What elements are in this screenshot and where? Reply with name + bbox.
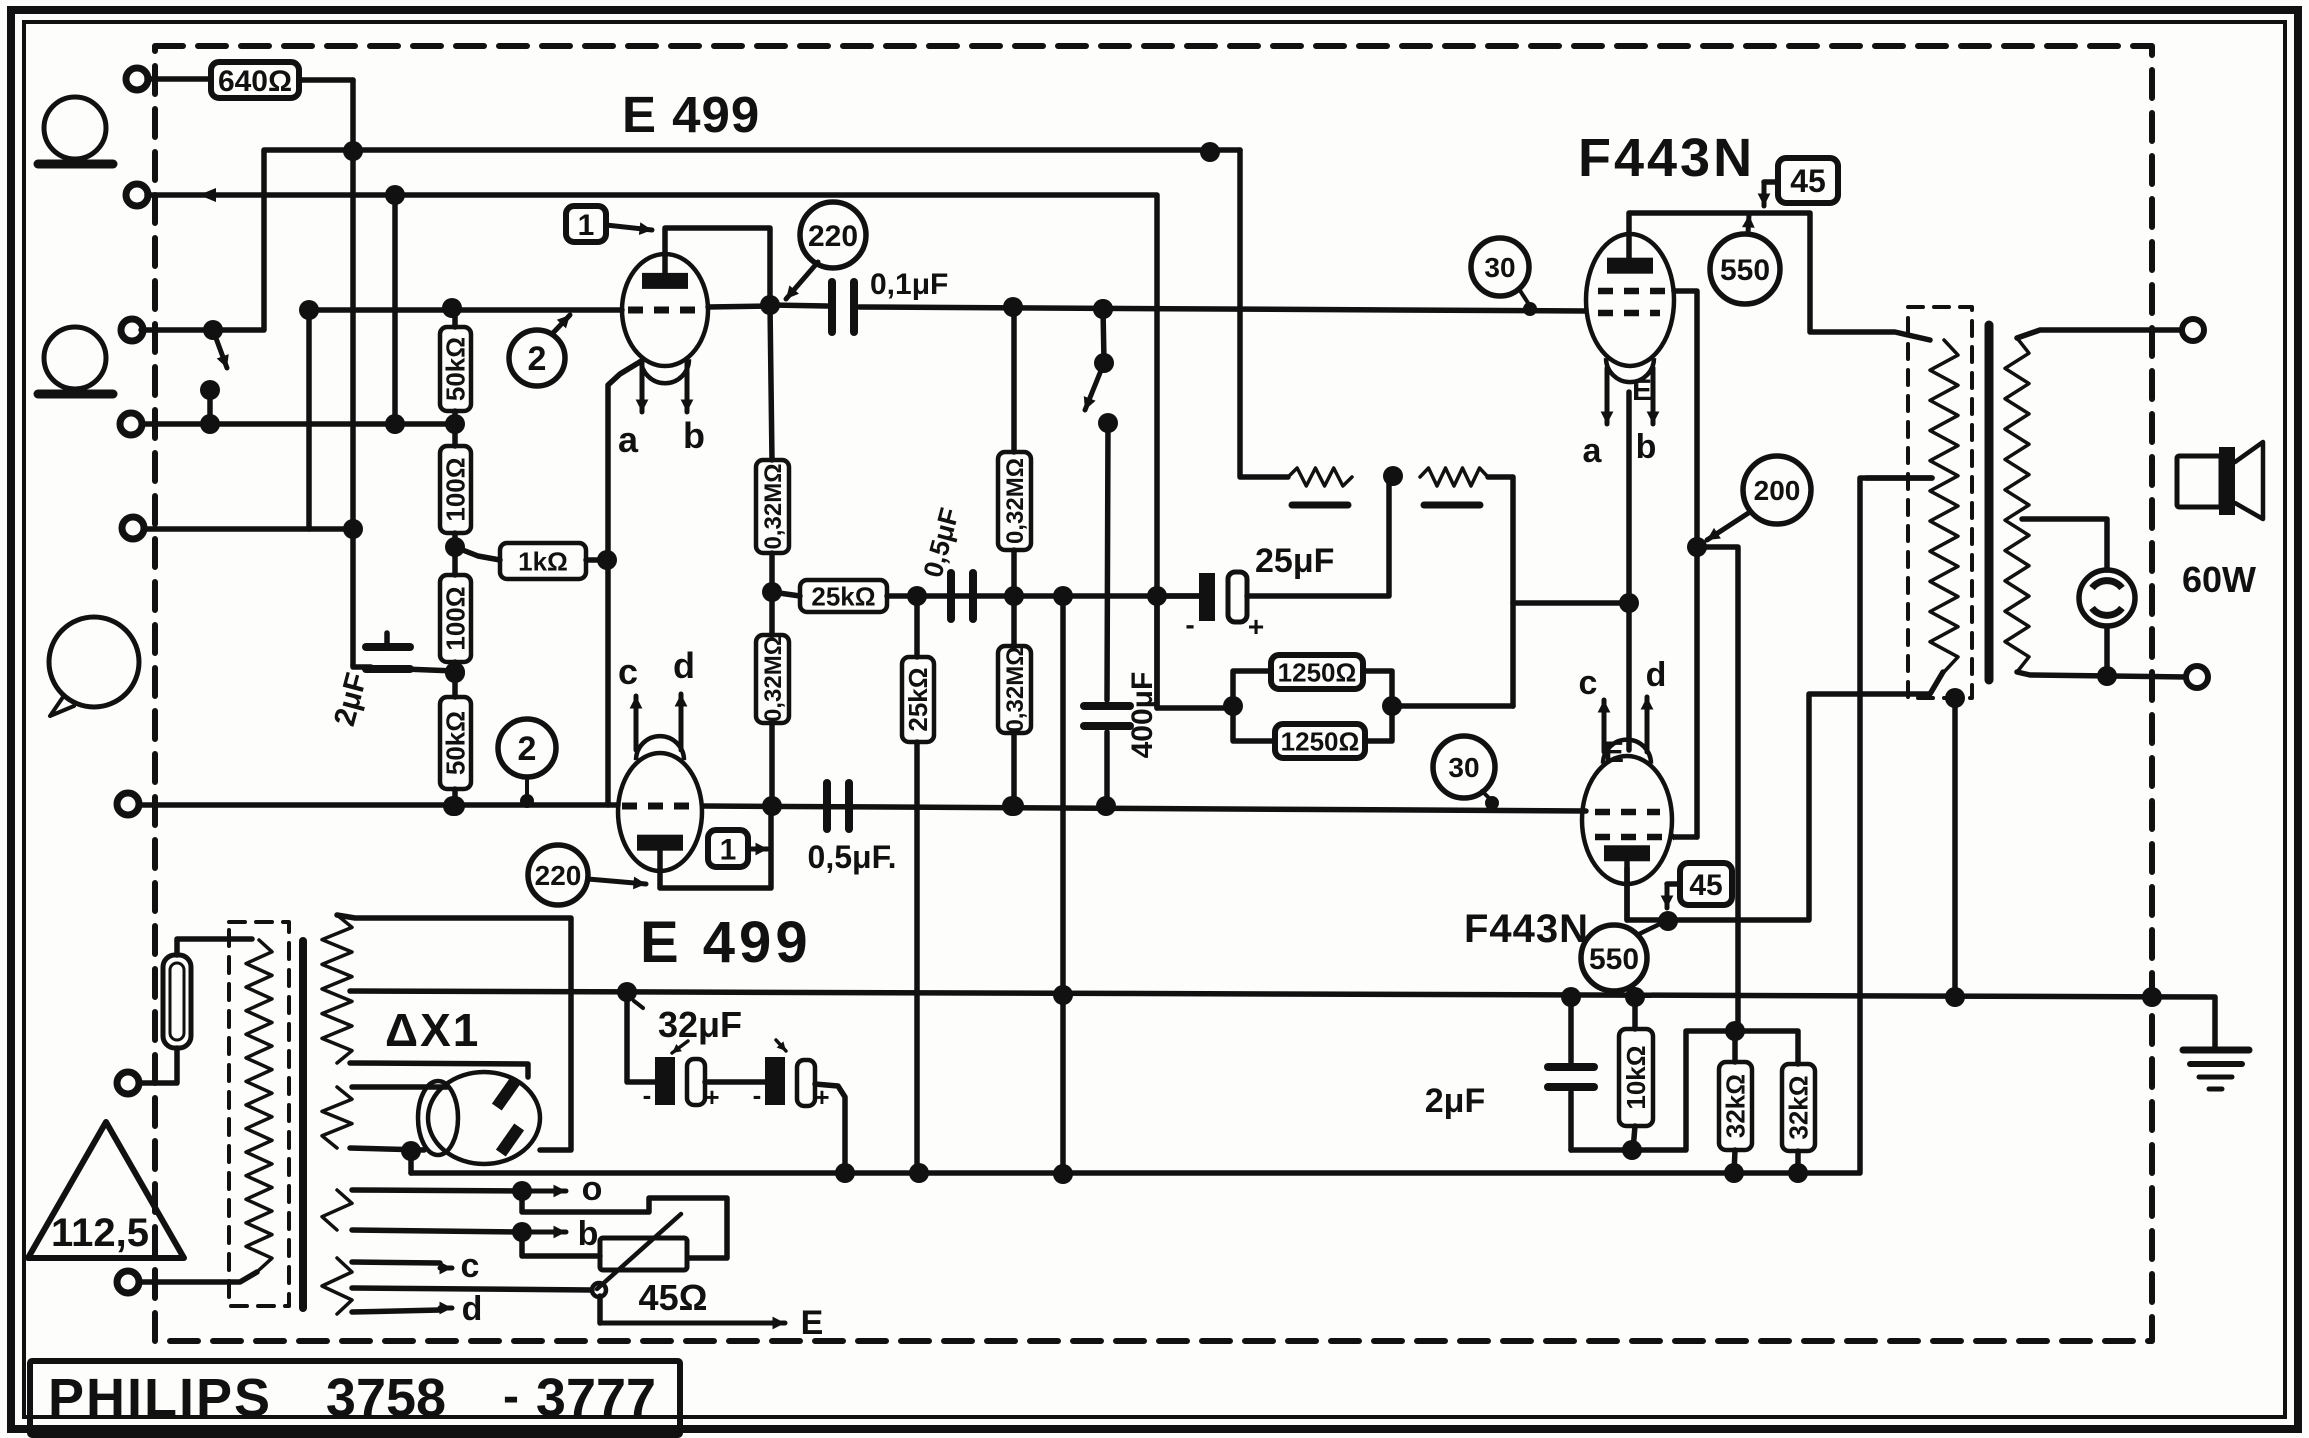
boxed 45 lower <box>1680 863 1732 905</box>
wire screen stub <box>1674 834 1697 840</box>
svg-text:PHILIPS: PHILIPS <box>48 1368 272 1428</box>
label 32uF <box>658 1004 786 1053</box>
wire AX1 anode1 lead <box>350 1063 528 1077</box>
svg-text:ΔX1: ΔX1 <box>385 1004 480 1056</box>
terminal T3 <box>121 319 143 341</box>
mains transformer core <box>299 941 307 1308</box>
label 2uF bias <box>1425 1082 1485 1120</box>
circled 220 upper <box>800 202 866 268</box>
mains transformer primary zigzag <box>246 940 272 1270</box>
resistor R 100ohm (upper) <box>440 446 471 533</box>
boxed 1 upper <box>566 206 606 242</box>
svg-text:10kΩ: 10kΩ <box>1621 1045 1651 1109</box>
tube V3 cathode arrows <box>1601 368 1660 424</box>
circled 200 <box>1743 456 1811 524</box>
svg-text:200: 200 <box>1754 475 1801 506</box>
tube E499 lower V2 <box>618 736 702 871</box>
svg-text:1: 1 <box>578 209 595 242</box>
tube V1 anode lead <box>665 228 770 305</box>
tube E499 upper V1 <box>622 254 708 383</box>
wire AX1 out to rail B <box>408 1151 414 1173</box>
wire x1240 down to hum pot <box>1240 150 1288 477</box>
svg-text:F443N: F443N <box>1464 907 1589 951</box>
tube V1 grid wire stub <box>708 306 770 307</box>
tube AX1 rectifier <box>418 1072 540 1164</box>
wire lamp down <box>2104 626 2110 675</box>
node dot 1210,152 <box>1200 142 1220 162</box>
capacitor 2uF input <box>328 633 455 730</box>
svg-text:640Ω: 640Ω <box>218 65 292 98</box>
circled 2 lower <box>498 719 556 808</box>
wire 1k leads <box>455 547 607 560</box>
arrow 220 to node <box>786 262 818 299</box>
label E V3 <box>1632 374 1652 407</box>
wire T6 to fuse <box>140 1048 177 1083</box>
circled 220 lower <box>528 845 588 905</box>
terminal T6 <box>117 793 139 815</box>
svg-text:0,1μF: 0,1μF <box>870 268 948 301</box>
node dot 1955,698 <box>1945 688 1965 708</box>
wire grid y310 left <box>309 307 622 313</box>
terminal T2 <box>126 184 148 206</box>
svg-text:1250Ω: 1250Ω <box>1278 657 1357 687</box>
node dot 1013,307 <box>1003 297 1023 317</box>
svg-text:-: - <box>643 1080 652 1110</box>
wire HV mid B+ rail <box>350 991 2215 1048</box>
heater lead o <box>352 1170 602 1208</box>
node dot 917,596 <box>907 586 927 606</box>
node dot 1635,997 <box>1625 987 1645 1007</box>
svg-text:220: 220 <box>808 220 858 253</box>
wire primary bottom <box>1627 672 1943 920</box>
wire E line x1629 <box>1626 392 1632 603</box>
circled 2 upper <box>509 330 565 386</box>
node dot 627,992 <box>617 982 643 1008</box>
wire x1014 mid <box>1011 550 1017 596</box>
resistor R 1k <box>500 543 586 579</box>
node dot 411,1151 <box>401 1141 421 1161</box>
node dot x353/y150 <box>343 141 363 161</box>
node dot 455,424 <box>445 414 465 434</box>
resistor R 50k (upper) <box>440 327 471 411</box>
wire 1250 left feed <box>1154 596 1160 708</box>
svg-text:a: a <box>618 419 639 460</box>
wire AX1 filament bottom <box>350 1148 424 1150</box>
node dot 309,310 <box>299 300 319 320</box>
node dot 455,806 <box>445 796 465 816</box>
wire 32uF2 to railB <box>815 1084 845 1173</box>
wire y150 bus <box>141 150 1240 330</box>
svg-text:2μF: 2μF <box>1425 1082 1485 1120</box>
tube V2 anode lead <box>660 806 771 888</box>
node dot 455,673b <box>445 662 465 682</box>
wire 400uF to y806 <box>1104 732 1110 806</box>
wire wiper to E <box>600 1296 823 1342</box>
label E V4 <box>1604 736 1624 769</box>
capacitor 25uF electrolytic <box>1157 542 1334 642</box>
hum resistor zigzag right <box>1420 468 1488 505</box>
svg-text:45: 45 <box>1790 163 1826 199</box>
label b V1 <box>683 415 705 456</box>
wire x395 T2-T4 link <box>385 195 405 434</box>
svg-text:550: 550 <box>1720 254 1770 287</box>
svg-text:550: 550 <box>1589 943 1639 976</box>
wire HV top to AX1 anode2 <box>337 915 571 1150</box>
line 30b tail <box>1482 791 1499 810</box>
tube V2 grid dashes <box>622 803 700 810</box>
wire 45 to anode wire <box>1758 182 1778 206</box>
node dot 772,592 <box>762 582 782 602</box>
wire T2 y195 <box>147 188 1233 708</box>
tube V3 screen dashes <box>1598 288 1674 295</box>
wire grid y805 long <box>140 805 1586 811</box>
speaker 60W <box>2177 442 2263 600</box>
node dot 395,195 <box>385 185 405 205</box>
label d V2 <box>673 645 695 686</box>
label b V3 <box>1636 428 1657 466</box>
wire E line to V4 <box>1626 603 1632 750</box>
wire x1014 low <box>1011 596 1017 806</box>
wire x1014 chain <box>1011 307 1017 452</box>
wire staircase o to 45ohm <box>522 1191 727 1258</box>
label F443N lower <box>1464 907 1589 951</box>
HV secondary zigzag <box>322 915 352 1063</box>
node dot 455,547 <box>445 537 465 557</box>
wire B+ to 32uF <box>627 992 655 1082</box>
svg-text:25kΩ: 25kΩ <box>811 581 875 611</box>
label E499 lower <box>640 910 812 975</box>
boxed 45 upper <box>1778 158 1838 203</box>
heater lead b <box>352 1215 598 1253</box>
node dot 1014,596 <box>1004 586 1024 606</box>
wire between 32uF <box>705 1079 765 1085</box>
tube F443N lower V4 <box>1582 740 1672 884</box>
label a V1 <box>618 419 639 460</box>
svg-text:F443N: F443N <box>1578 128 1755 188</box>
rail B y1173 <box>411 478 1932 1173</box>
node dot 772,806 <box>762 796 782 816</box>
svg-text:-: - <box>503 1370 519 1423</box>
arrow 550 up <box>1742 215 1755 233</box>
node dot 1157,596 <box>1147 586 1167 606</box>
wire 100b <box>452 547 458 673</box>
svg-text:a: a <box>1583 432 1603 470</box>
terminal T8 <box>117 1271 139 1293</box>
capacitor 32uF #2 <box>753 1057 830 1112</box>
svg-text:1250Ω: 1250Ω <box>1281 726 1360 756</box>
wire secondary tap to lamp <box>2022 519 2107 570</box>
label d V4 <box>1646 656 1667 694</box>
svg-text:0,5μF.: 0,5μF. <box>808 839 897 875</box>
arrow 200 to screen node <box>1707 512 1750 540</box>
mains transformer dashed box <box>229 922 289 1306</box>
tube V4 anode lead <box>1624 862 1630 920</box>
wire x772 upper <box>770 305 772 460</box>
node dot 1012,806 b <box>1002 796 1022 816</box>
svg-text:E: E <box>1632 374 1652 407</box>
resistor R 1250 #1 <box>1233 655 1392 706</box>
arrow 1-box lower <box>748 843 768 856</box>
wire x309 grid link <box>306 310 312 529</box>
wire 50kb <box>452 673 458 806</box>
resistor R 32k #2 <box>1735 1031 1815 1173</box>
wire 25uF to hum pot <box>1247 477 1389 596</box>
svg-text:30: 30 <box>1448 752 1479 783</box>
wire 1697 to 1738 <box>1697 547 1738 1031</box>
svg-text:2: 2 <box>518 730 537 768</box>
svg-text:32kΩ: 32kΩ <box>1784 1075 1814 1139</box>
label AX1 <box>385 1004 480 1056</box>
wire T5b y529 <box>144 526 353 532</box>
wire heater mid to wiper <box>352 1288 592 1290</box>
tube V4 grid dashes <box>1595 809 1660 816</box>
svg-text:3758: 3758 <box>326 1368 446 1428</box>
wire 1250 to cathode E <box>1392 603 1629 706</box>
arrow 220 lower <box>588 877 646 890</box>
capacitor 400uF <box>1084 672 1159 759</box>
wire x917 down <box>914 596 920 1173</box>
capacitor 0.5uF y805 <box>808 783 897 875</box>
svg-text:b: b <box>683 415 705 456</box>
tube F443N upper V3 <box>1586 234 1674 382</box>
resistor R 10k <box>1619 997 1653 1150</box>
node dot 1530,309 (30 pointer) <box>1523 302 1537 316</box>
svg-text:d: d <box>1646 656 1667 694</box>
tube V1 filament arrows <box>636 363 694 412</box>
rheostat 45ohm <box>592 1214 707 1318</box>
capacitor 32uF #1 <box>643 1057 720 1112</box>
microphone symbol M2 <box>38 327 113 394</box>
output transformer secondary zigzag <box>2005 338 2029 672</box>
node dot 1392,706 <box>1382 696 1402 716</box>
heater lead d <box>352 1290 482 1328</box>
node dot 1063,596 <box>1053 586 1073 606</box>
svg-text:45Ω: 45Ω <box>639 1277 708 1318</box>
resistor R 0.32M #1 <box>756 460 789 553</box>
node dot 2107,676 <box>2097 666 2117 686</box>
node dot 1668,921 <box>1658 911 1678 931</box>
wire x772 mid <box>769 553 775 592</box>
wire T4 y424 <box>142 421 455 427</box>
node dot 2152,997 <box>2142 987 2162 1007</box>
svg-text:b: b <box>578 1215 599 1253</box>
resistor R 100ohm (lower) <box>440 575 471 662</box>
circled 550 lower <box>1581 925 1647 991</box>
resistor R 1250 #2 <box>1233 706 1392 758</box>
svg-text:25μF: 25μF <box>1255 542 1334 580</box>
AX1 filament winding zigzag <box>322 1087 352 1148</box>
node dot 353,529 <box>343 519 363 539</box>
svg-text:o: o <box>582 1170 603 1208</box>
svg-text:30: 30 <box>1484 252 1515 283</box>
svg-text:220: 220 <box>535 860 582 891</box>
svg-text:-: - <box>753 1080 762 1110</box>
heater winding 2 zigzag <box>322 1258 352 1314</box>
terminal T5 <box>122 517 144 539</box>
svg-text:d: d <box>673 645 695 686</box>
svg-text:c: c <box>618 651 638 692</box>
terminal output bottom <box>2186 666 2208 688</box>
svg-text:100Ω: 100Ω <box>441 457 471 521</box>
wire y596 bus <box>917 593 1199 599</box>
svg-text:100Ω: 100Ω <box>441 586 471 650</box>
label c V4 <box>1579 664 1598 702</box>
label c V2 <box>618 651 638 692</box>
svg-text:+: + <box>704 1082 719 1112</box>
resistor R 0.32M #2 <box>998 452 1031 550</box>
output transformer core <box>1985 325 1994 680</box>
node dot 1063,1174 <box>1053 1164 1073 1184</box>
circled 30 upper <box>1471 238 1529 296</box>
svg-text:E: E <box>801 1304 824 1342</box>
wire 100a <box>452 424 458 547</box>
svg-text:32kΩ: 32kΩ <box>1721 1074 1751 1138</box>
node dot 1735,1031 <box>1725 1021 1745 1041</box>
tube V1 cathode lead <box>608 360 643 805</box>
svg-text:+: + <box>1248 611 1264 642</box>
svg-text:3777: 3777 <box>536 1368 656 1428</box>
node dot 1063,995 <box>1053 985 1073 1005</box>
hum resistor zigzag left <box>1288 468 1352 505</box>
boxed 1 lower <box>708 830 748 867</box>
wire T7 to primary <box>140 1272 257 1282</box>
svg-text:50kΩ: 50kΩ <box>441 711 471 775</box>
wire 25k leads <box>772 592 917 596</box>
resistor R 0.32M #3 <box>756 635 789 723</box>
node dot hum center <box>1383 466 1403 486</box>
node dot 1233,706 <box>1223 696 1243 716</box>
output transformer dashed box <box>1908 307 1972 698</box>
svg-text:0,32MΩ: 0,32MΩ <box>1002 647 1029 733</box>
resistor R 50k (lower) <box>440 697 471 789</box>
resistor R 32k #1 <box>1719 1031 1752 1173</box>
node dot 845,1173 <box>835 1163 855 1183</box>
heater lead c <box>352 1247 479 1285</box>
label a V3 <box>1583 432 1603 470</box>
svg-text:1: 1 <box>720 833 737 866</box>
resistor R 25k horizontal <box>800 580 887 612</box>
svg-text:E 499: E 499 <box>640 910 812 975</box>
capacitor 0.5uF y596 <box>918 505 973 619</box>
node dot 1103,309 <box>1093 299 1113 319</box>
svg-text:0,32MΩ: 0,32MΩ <box>760 636 787 722</box>
terminal T4 <box>120 413 142 435</box>
wire 640ohm to node <box>299 77 353 83</box>
triangle 112.5 <box>28 1122 184 1258</box>
wire primary mid tap <box>1866 475 1932 481</box>
node dot 452,308 <box>442 298 462 318</box>
label E499 upper <box>622 86 760 143</box>
node dot 1798,1173 <box>1788 1163 1808 1183</box>
svg-text:0,32MΩ: 0,32MΩ <box>1002 458 1029 544</box>
svg-text:112,5: 112,5 <box>51 1211 149 1255</box>
label F443N upper <box>1578 128 1755 188</box>
svg-text:60W: 60W <box>2182 559 2256 600</box>
node dot 919,1173 <box>909 1163 929 1183</box>
wire y307 to F443N grid <box>859 307 1586 311</box>
arrow circled2 to grid <box>552 315 570 334</box>
output transformer primary zigzag <box>1930 340 1958 672</box>
wire hum right corner <box>1488 477 1513 706</box>
wire bias loop <box>1571 1031 1735 1150</box>
node dot 453,806 <box>443 796 463 816</box>
tube V4 cathode arrows up <box>1598 697 1654 752</box>
node dot 1571,997 <box>1561 987 1581 1007</box>
wire 45b arrow <box>1661 884 1680 908</box>
microphone symbol M1 <box>38 97 113 164</box>
svg-text:400μF: 400μF <box>1126 672 1159 759</box>
switch S1 input selector <box>200 320 229 434</box>
terminal T1 <box>126 68 148 90</box>
wire 50k to y424 <box>452 308 458 424</box>
wire x772 lower <box>769 592 775 806</box>
wire b to 45ohm <box>522 1232 600 1256</box>
wire vertical x353 (640ohm down to 2uF) <box>350 80 356 665</box>
svg-text:E 499: E 499 <box>622 86 760 143</box>
svg-text:-: - <box>1185 609 1194 640</box>
line 30 tail <box>1519 289 1530 306</box>
wire T1 to 640ohm <box>147 76 211 82</box>
tube V1 grid dashes <box>628 307 702 314</box>
switch S2 hT <box>1084 299 1118 433</box>
svg-text:c: c <box>461 1247 480 1285</box>
heater winding 1 zigzag <box>322 1190 352 1230</box>
node dot 455,673 <box>445 663 465 683</box>
node dot 1629,603 <box>1619 593 1639 613</box>
node dot 1955,997 <box>1945 987 1965 1007</box>
circled 550 upper <box>1710 234 1780 304</box>
svg-text:50kΩ: 50kΩ <box>441 337 471 401</box>
circled 30 lower <box>1433 736 1495 798</box>
wire AX1 filament top <box>352 1084 447 1090</box>
svg-text:c: c <box>1579 664 1598 702</box>
terminal T7 <box>117 1072 139 1094</box>
svg-text:b: b <box>1636 428 1657 466</box>
wire x1063 long <box>1060 596 1066 1174</box>
node dot 1697,547 <box>1687 537 1707 557</box>
tube V4 screen dashes <box>1595 834 1674 841</box>
wire screen to x1697 <box>1674 291 1697 837</box>
wire x1107 to 400uF <box>1107 423 1108 700</box>
node dot 770,305 <box>760 295 780 315</box>
arrow from 1-box <box>606 222 652 235</box>
wire secondary top <box>2017 330 2182 338</box>
chassis dashed boundary <box>155 46 2152 1341</box>
svg-text:0,32MΩ: 0,32MΩ <box>760 464 787 550</box>
line 550b tail <box>1637 923 1662 935</box>
node dot 607,560 <box>597 550 617 570</box>
resistor R 25k vertical <box>902 657 934 742</box>
terminal output top <box>2182 319 2204 341</box>
capacitor 2uF bias <box>1548 997 1594 1150</box>
svg-text:1kΩ: 1kΩ <box>518 546 568 576</box>
svg-text:45: 45 <box>1689 869 1722 902</box>
capacitor 0.1uF <box>770 268 948 332</box>
node dot 1632,1150 <box>1622 1140 1642 1160</box>
wire secondary bottom <box>2017 672 2186 677</box>
resistor 640ohm <box>211 62 299 98</box>
node dot 1734,1173 <box>1724 1163 1744 1183</box>
svg-text:d: d <box>462 1290 483 1328</box>
pilot lamp <box>2079 570 2135 626</box>
ground symbol <box>2183 1050 2249 1089</box>
svg-text:32μF: 32μF <box>658 1004 742 1045</box>
tube V3 grid dashes <box>1598 310 1660 317</box>
resistor R 0.32M #4 <box>998 646 1031 733</box>
tube V2 cathode arrows up <box>630 694 688 750</box>
node dot 1106,806 <box>1096 796 1116 816</box>
fuse F1 <box>163 939 252 1048</box>
